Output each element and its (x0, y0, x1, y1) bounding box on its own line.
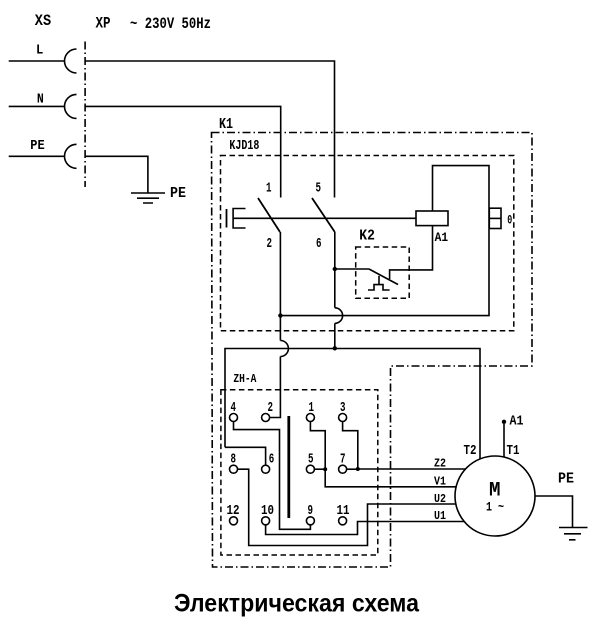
svg-text:8: 8 (231, 453, 237, 468)
connector socket PE arc (65, 144, 77, 168)
svg-text:~ 230V 50Hz: ~ 230V 50Hz (130, 15, 211, 33)
overload release link (378, 276, 380, 285)
wire node C to motor V1 (325, 469, 470, 487)
wire hop over relay return (335, 308, 343, 324)
overload contact blade (369, 269, 398, 285)
svg-text:1: 1 (309, 401, 315, 416)
wire terminal 7 to node D (347, 468, 358, 470)
terminal 5 (306, 465, 314, 473)
terminal 9 (306, 517, 314, 525)
svg-text:A1: A1 (510, 415, 524, 430)
wire node D to motor Z2 (358, 468, 470, 470)
svg-text:5: 5 (316, 182, 322, 197)
terminal 7 (339, 465, 347, 473)
wire terminal 3 to node D (343, 422, 358, 470)
node A1 dot (502, 420, 506, 424)
push button actuator bar (226, 209, 228, 228)
terminal 2 (262, 414, 270, 422)
terminal 11 (339, 517, 347, 525)
svg-text:T1: T1 (507, 443, 520, 459)
relay coil A1 box (416, 211, 448, 226)
svg-text:2: 2 (268, 401, 274, 416)
junction node C (323, 467, 327, 471)
switch bar (287, 416, 290, 518)
svg-text:3: 3 (340, 401, 346, 416)
svg-text:1 ~: 1 ~ (486, 500, 504, 515)
svg-text:K2: K2 (359, 229, 375, 245)
svg-text:N: N (37, 92, 44, 108)
ground PE (131, 193, 165, 203)
svg-text:XS: XS (35, 12, 52, 30)
svg-text:5: 5 (308, 453, 314, 468)
wire hop over junction wire (280, 341, 288, 357)
junction node D (356, 467, 360, 471)
push button bracket (233, 209, 245, 229)
svg-text:ZH-A: ZH-A (233, 372, 257, 386)
wire contact 2 down to terminal 2 (270, 232, 281, 418)
svg-text:KJD18: KJD18 (229, 138, 259, 154)
motor M1 circle (455, 456, 535, 536)
junction node B (333, 346, 337, 350)
terminal 8 (230, 465, 238, 473)
svg-text:4: 4 (231, 401, 237, 416)
wire L left (9, 60, 65, 62)
svg-text:9: 9 (308, 504, 314, 519)
svg-text:1: 1 (266, 182, 272, 197)
terminal 12 (230, 517, 238, 525)
module ZH-A dashed box (221, 390, 378, 555)
wire motor to PE ground (535, 496, 573, 528)
terminal 4 (230, 414, 238, 422)
wire coil bottom to overload (390, 226, 433, 279)
svg-text:PE: PE (30, 138, 44, 154)
svg-text:U1: U1 (434, 509, 446, 523)
svg-text:Электрическая схема: Электрическая схема (174, 590, 420, 618)
svg-text:PE: PE (170, 185, 186, 202)
connector socket N arc (65, 94, 77, 118)
svg-text:PE: PE (558, 471, 574, 488)
wire terminal 4 to terminal 9 (234, 422, 311, 530)
wire L to contact 5 (85, 61, 334, 198)
overload heater symbol (368, 285, 390, 290)
svg-text:U2: U2 (434, 492, 446, 506)
wire PE to ground (85, 156, 148, 193)
svg-text:2: 2 (267, 237, 273, 252)
svg-text:XP: XP (96, 15, 111, 33)
svg-text:7: 7 (340, 453, 346, 468)
svg-text:L: L (36, 43, 43, 59)
wire terminal 10 to motor U1 (266, 522, 470, 535)
ground motor PE (559, 528, 588, 540)
svg-text:K1: K1 (219, 116, 233, 133)
connector XS/XP boundary dash-dot line (84, 42, 86, 188)
junction node K2 tap (333, 267, 337, 271)
wire motor A1 sense (503, 424, 505, 458)
svg-text:Z2: Z2 (434, 457, 446, 471)
connector socket L arc (65, 49, 77, 73)
wire contact 6 down (334, 232, 336, 348)
wire branch to terminal 6 (225, 447, 266, 465)
terminal 3 (339, 414, 347, 422)
wire terminal 1 to node C (310, 422, 325, 470)
svg-text:12: 12 (227, 504, 240, 519)
svg-text:T2: T2 (464, 443, 477, 459)
svg-text:6: 6 (316, 237, 322, 252)
terminal 0 box (489, 208, 501, 228)
enclosure K1 dash-dot boundary (212, 133, 533, 568)
svg-text:6: 6 (269, 453, 275, 468)
junction node A (278, 313, 282, 317)
contact blade 5-6 (312, 198, 335, 232)
overload contact lead (335, 268, 369, 270)
module KJD18 dashed box (221, 156, 514, 331)
terminal 6 (262, 465, 270, 473)
terminal 1 (306, 414, 314, 422)
wire PE left (9, 155, 65, 157)
wire junction B to motor T2 and terminal 6 branch (225, 349, 480, 460)
actuator link to coil (233, 217, 416, 219)
wire terminal 8 to motor U2 (238, 469, 471, 545)
svg-text:0: 0 (507, 212, 512, 227)
wire N to contact 1 (85, 106, 281, 197)
contact blade 1-2 (258, 198, 280, 232)
svg-text:V1: V1 (434, 475, 446, 489)
svg-text:11: 11 (337, 504, 350, 519)
relay K2 dashed box (356, 247, 410, 298)
svg-text:10: 10 (261, 504, 274, 519)
terminal 10 (262, 517, 270, 525)
wire N left (9, 105, 65, 107)
wire coil top loop to return (280, 166, 489, 316)
wire terminal 5 to node C (314, 468, 325, 470)
svg-text:A1: A1 (435, 230, 449, 245)
